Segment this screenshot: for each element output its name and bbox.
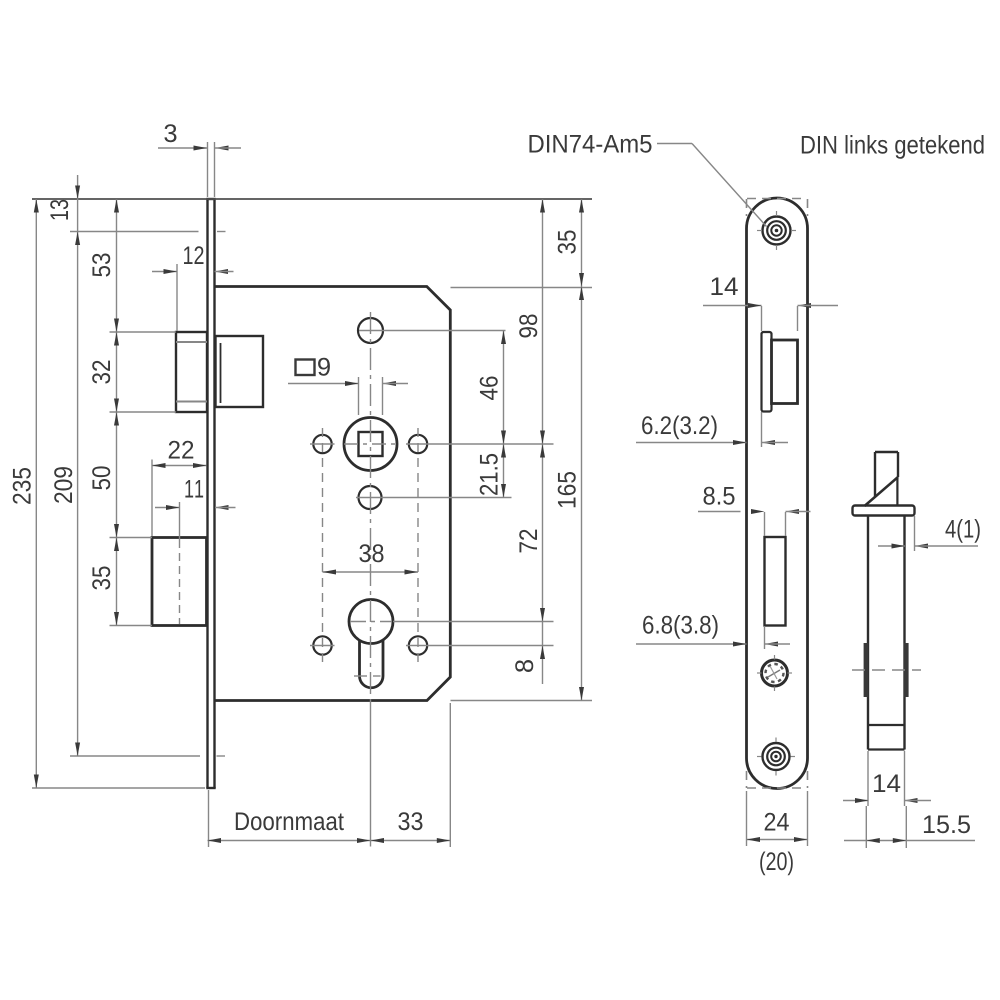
extension line case top (35/165): [451, 287, 593, 289]
guide bar left: [864, 643, 869, 697]
dimension 4(1): [878, 516, 980, 551]
extension line bottom screw centre: [70, 755, 225, 757]
label 8: [515, 660, 533, 672]
label 46: [480, 376, 498, 399]
dashed square corner top: [747, 199, 808, 217]
upper fixing hole: [358, 318, 383, 343]
extension line lower holes centre (8): [310, 645, 554, 647]
dashed centreline latch view: [852, 669, 921, 671]
top countersunk screw DIN74-Am5: [757, 211, 796, 250]
extension line faceplate top (y=199): [32, 198, 592, 200]
chain dimension 98/72/8: [540, 199, 545, 684]
extension line middle hole centre (21.5): [356, 497, 512, 499]
dimension 38 (post hole spacing): [323, 544, 419, 574]
extension line backset right (case edge): [449, 703, 451, 847]
chain dimension 46/21.5: [501, 331, 506, 498]
extension line top screw centre (13): [70, 231, 226, 233]
dimension 15.5 (guide width): [844, 815, 975, 843]
extension line deadbolt top: [110, 537, 153, 539]
dimension 6.8(3.8): [636, 615, 790, 649]
dimension square 9: [288, 358, 408, 386]
follower square 9mm: [359, 432, 383, 456]
extension lines guide width: [866, 806, 906, 848]
chain dimension line 53/32/50/35: [114, 199, 119, 626]
latch bolt tail: [216, 336, 264, 407]
dimension 24 / (20): [747, 791, 808, 875]
extension line cylinder centre (72): [350, 621, 554, 623]
middle screw (torx) front view: [757, 655, 792, 691]
guide bar right: [904, 643, 909, 697]
screw post hole top-right: [409, 435, 427, 453]
chain dimension 35/165: [579, 199, 584, 701]
dimension 12 (latch protrusion): [152, 246, 234, 274]
dimension 3 (faceplate thickness): [158, 124, 241, 150]
dimension 8.5 (deadbolt slot width): [698, 487, 811, 536]
dimension 14 (shaft width): [843, 774, 931, 803]
label 209: [54, 467, 72, 503]
extension line follower centre (98/46/21.5): [310, 443, 554, 445]
extension line faceplate bottom (235): [32, 787, 205, 789]
label 32: [92, 361, 110, 384]
label 21.5: [480, 454, 498, 495]
latch bolt head: [176, 332, 207, 412]
latch shaft: [868, 516, 905, 750]
screw post hole top-left: [313, 435, 331, 453]
label DIN links getekend: [802, 135, 984, 159]
dimension 11: [155, 480, 236, 510]
screw post hole bottom-right: [409, 636, 427, 654]
middle fixing hole: [359, 486, 382, 509]
deadbolt slot front view: [765, 537, 786, 626]
deadbolt retracted centreline (dashed): [179, 502, 181, 624]
dashed line linking left post holes: [322, 428, 324, 662]
dimension Doornmaat / 33: [208, 812, 451, 843]
extension line square right (9): [382, 377, 384, 415]
extension line deadbolt front (22): [151, 460, 153, 537]
label 35 right: [558, 230, 576, 253]
shaft end block: [868, 725, 905, 750]
label 50: [92, 466, 110, 489]
label 72: [519, 530, 537, 553]
dashed square corner bottom: [747, 771, 808, 788]
faceplate side view (left view): [206, 199, 215, 788]
latch bolt front view: [762, 332, 798, 412]
dimension 13 and 209 line: [75, 175, 80, 756]
extension line faceplate thickness right: [214, 142, 216, 197]
extension line square left (9): [358, 377, 360, 415]
extension lines shaft width: [868, 751, 905, 806]
profile cylinder hole: [349, 600, 393, 688]
deadbolt box: [152, 538, 207, 626]
extension line latch top: [110, 331, 177, 333]
dashed line linking right post holes: [417, 428, 419, 662]
screw post hole bottom-left: [313, 636, 331, 654]
dimension 14 (latch slot width): [703, 277, 838, 331]
extension line latch bottom: [110, 411, 177, 413]
latch bevel: [865, 477, 899, 506]
extension line upper hole centre (46): [359, 330, 506, 332]
lock case outline: [216, 287, 451, 701]
faceplate front view outline (rounded): [747, 198, 808, 789]
extension line case bottom (165): [451, 700, 593, 702]
extension line faceplate thickness left: [207, 142, 209, 197]
label 165: [558, 472, 576, 507]
label 53: [92, 253, 110, 276]
faceplate cross-section flange: [853, 506, 915, 516]
latch tip rectangle: [875, 452, 898, 497]
label 35 left: [92, 566, 110, 589]
dimension 235 line: [34, 199, 39, 788]
bottom countersunk screw: [757, 738, 795, 776]
extension line deadbolt bottom: [110, 625, 153, 627]
label DIN74-Am5 with leader: [529, 135, 766, 227]
label 235: [13, 468, 31, 504]
label 98: [519, 314, 537, 337]
extension line latch front (12): [176, 264, 178, 331]
handle follower circle: [344, 418, 397, 471]
dimension 6.2(3.2): [636, 412, 788, 447]
label 13: [50, 200, 68, 220]
extension line backset left: [208, 790, 210, 847]
dimension 22 (deadbolt throw): [152, 441, 207, 468]
vertical centreline of lock axis: [370, 312, 372, 847]
